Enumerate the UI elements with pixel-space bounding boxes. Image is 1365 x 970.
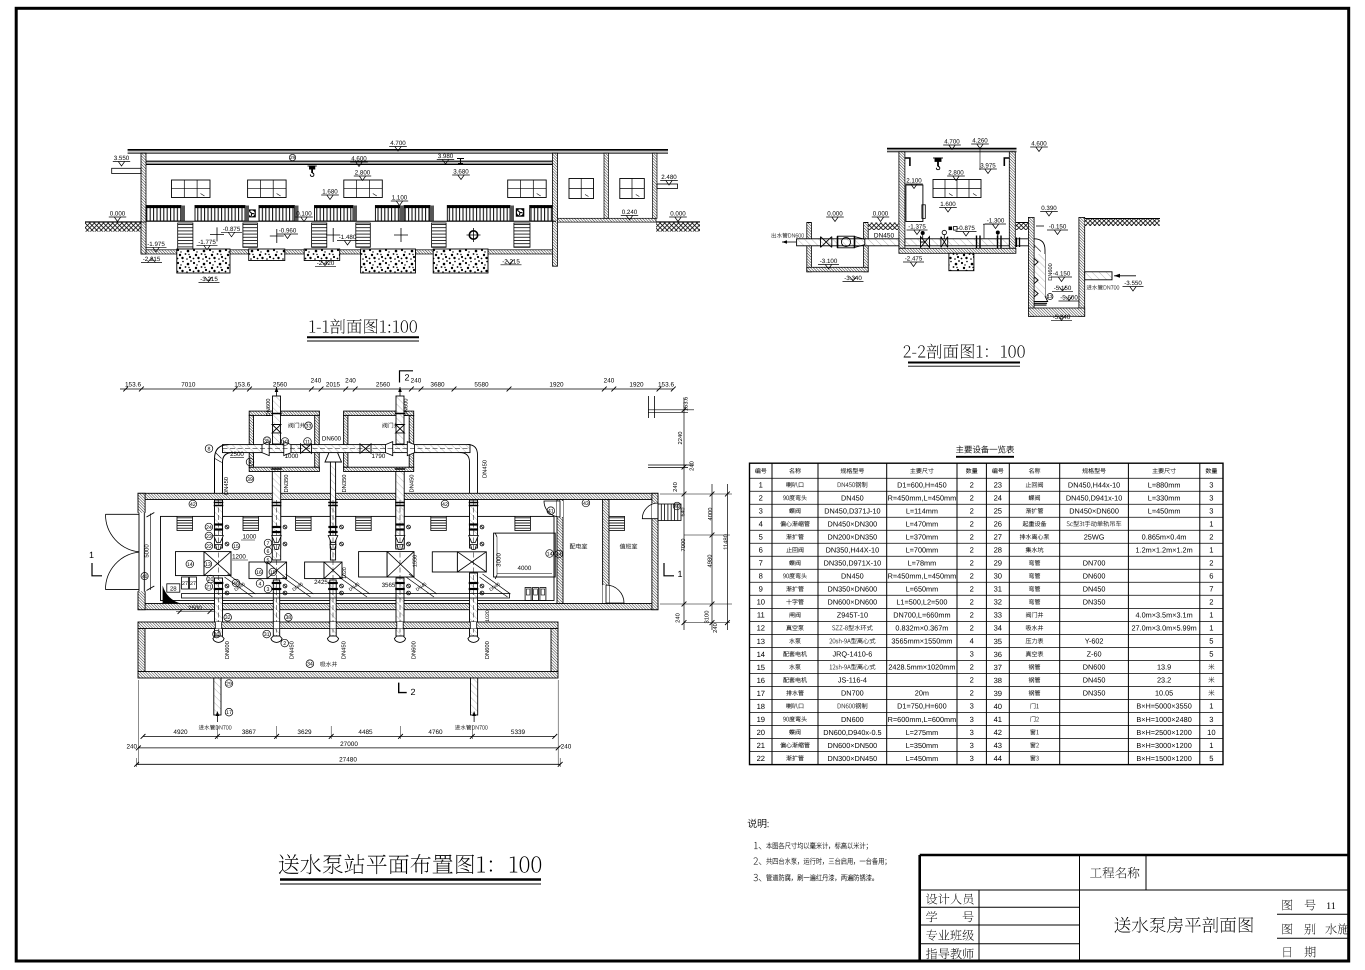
svg-text:1.100: 1.100 [392,195,408,202]
svg-text:2: 2 [1209,533,1213,542]
svg-text:27: 27 [994,533,1002,542]
interior floor line under louvers [146,220,556,222]
svg-text:DN450: DN450 [481,460,488,478]
svg-text:1: 1 [1209,624,1213,633]
svg-text:24: 24 [994,494,1002,503]
section mark 1 left [92,563,102,576]
sub-grade elevation markers [146,246,167,248]
riser through building [396,500,404,548]
suction well left wall [138,629,145,672]
svg-text:34: 34 [994,624,1002,633]
svg-text:32: 32 [994,598,1002,607]
svg-text:1020: 1020 [342,567,348,579]
svg-text:L=450mm: L=450mm [1148,507,1181,516]
svg-text:3.550: 3.550 [114,155,130,162]
svg-text:1000: 1000 [243,534,257,541]
elevation 0.000 over pit [826,216,844,218]
riser through building [272,500,280,548]
svg-text:4: 4 [259,581,262,587]
inlet flow arrow [1114,275,1136,277]
svg-text:240: 240 [126,744,137,751]
svg-text:L=330mm: L=330mm [1148,494,1181,503]
svg-text:4.700: 4.700 [944,139,960,146]
svg-text:4000: 4000 [518,565,532,572]
svg-text:33: 33 [306,424,312,430]
plan top dimension line [120,388,673,390]
svg-text:4760: 4760 [428,729,443,736]
svg-text:15: 15 [233,544,239,550]
svg-text:43: 43 [994,741,1002,750]
svg-text:1020: 1020 [485,610,491,622]
svg-text:5: 5 [759,533,763,542]
circled mark at bell [1047,294,1053,300]
svg-text:2: 2 [970,676,974,685]
svg-text:1550: 1550 [413,555,419,567]
svg-text:3: 3 [970,715,974,724]
svg-text:2: 2 [970,598,974,607]
flexible joint [838,236,855,248]
pilaster piers between louvers [181,206,185,222]
svg-text:30: 30 [994,572,1002,581]
svg-text:11: 11 [305,439,311,445]
svg-text:DN350: DN350 [1083,598,1106,607]
foundation block f5 [433,249,488,273]
svg-text:6: 6 [759,546,763,555]
svg-text:3: 3 [970,650,974,659]
svg-text:22: 22 [206,544,212,550]
pump 3 motor [305,562,324,579]
outlet pipe DN600 to the left [797,239,899,246]
circled numbers pump1 [205,523,213,531]
svg-text:16: 16 [256,570,262,576]
svg-text:240: 240 [345,378,356,385]
elevation -3.340 [843,281,864,283]
svg-text:39: 39 [994,689,1002,698]
elevation 0.240 [621,215,638,217]
svg-text:42: 42 [442,502,448,508]
svg-text:3: 3 [1209,507,1213,516]
svg-text:2: 2 [410,687,415,697]
right dim chain mid [711,484,713,630]
svg-text:B×H=2500×1200: B×H=2500×1200 [1136,728,1191,737]
27 boxes [182,577,189,589]
svg-text:21: 21 [757,741,765,750]
svg-text:7010: 7010 [181,382,196,389]
pump suction pipes to well [215,578,223,636]
svg-text:1: 1 [1209,611,1213,620]
top-right corner vertical stubs [649,396,655,418]
svg-text:3: 3 [970,741,974,750]
table title 主要设备一览表 [956,446,1014,454]
elevation -3.550 [1123,286,1144,288]
svg-text:Y-602: Y-602 [1085,637,1104,646]
svg-text:28: 28 [994,546,1002,555]
flange pair right [977,236,1002,250]
flange bars at wall crossings [214,503,224,506]
svg-text:15: 15 [757,663,765,672]
svg-text:2: 2 [970,520,974,529]
windows row (main hall), 3x2 grid each [172,180,211,198]
left canopy ledge [112,168,141,173]
right canopy at 2.480 [657,184,678,189]
building left wall (2-2) [899,152,905,249]
label 34 吸水井 [306,660,314,668]
inlet arrows up [217,714,474,722]
svg-text:2: 2 [1209,559,1213,568]
elevation -3.100 (pit floor) [818,264,839,266]
arrow up pipe A [276,387,278,396]
label 进水管DN700 [1087,285,1120,290]
svg-text:2: 2 [970,507,974,516]
svg-text:DN600: DN600 [484,641,491,659]
pump 4 motor [359,552,388,577]
svg-text:3565mm×1550mm: 3565mm×1550mm [891,637,952,646]
valve chamber 2 walls [344,411,414,471]
cross fittings at risers [262,442,291,456]
annex wall 1 [604,153,609,218]
svg-text:5339: 5339 [511,729,526,736]
pump 2 motor [249,562,267,579]
title block grid [920,855,1349,961]
svg-text:DN350: DN350 [1083,689,1106,698]
bottom dimension line 1 [143,735,555,737]
svg-text:4485: 4485 [358,729,373,736]
svg-text:1: 1 [677,569,682,579]
vertical pipe hatch [1034,254,1046,296]
svg-text:640: 640 [681,508,687,517]
svg-text:27: 27 [182,581,188,587]
svg-text:44: 44 [994,754,1002,763]
pump 3 casing (X box) [324,562,342,579]
svg-text:17: 17 [226,710,232,716]
elevation 2.800 (2-2) [947,175,965,177]
svg-text:3629: 3629 [297,729,312,736]
flow arrow left [782,241,796,243]
extension lines bottom [137,680,139,765]
svg-text:DN45: DN45 [415,581,428,592]
svg-text:3: 3 [1209,481,1213,490]
svg-text:13.9: 13.9 [1157,663,1171,672]
room labels [570,543,587,548]
section 1-1 roof slab [128,150,668,153]
svg-text:DN600: DN600 [322,436,342,443]
svg-text:1790: 1790 [372,453,386,460]
svg-text:DN450,D941x-10: DN450,D941x-10 [1066,494,1122,503]
note 1 [754,842,761,849]
door partition2 (bottom) [603,585,609,603]
svg-text:3: 3 [970,702,974,711]
svg-text:1: 1 [89,550,94,560]
title: 2-2剖面图1：100 [904,345,911,357]
svg-text:4000: 4000 [707,508,714,521]
svg-text:2: 2 [970,585,974,594]
ground line right + hatch [656,221,700,223]
ground hatch right of building [1016,223,1029,231]
suction well right wall [551,629,558,672]
svg-text:R=450mm,L=450mm: R=450mm,L=450mm [888,572,957,581]
target mark (circle+cross) [467,228,481,242]
annex wall 2 / right end wall [653,153,658,218]
svg-text:2.480: 2.480 [661,174,677,181]
section 2-2 roof slab [887,149,1017,152]
svg-text:2.800: 2.800 [355,170,371,177]
svg-text:1: 1 [1209,702,1213,711]
svg-text:DN600×DN600: DN600×DN600 [828,598,878,607]
设计人员 [926,893,937,904]
svg-text:2500: 2500 [188,605,202,612]
专业班级 [926,930,937,941]
svg-text:3: 3 [970,728,974,737]
circled 9,10,11,35 on manifold [246,458,254,466]
svg-text:2: 2 [404,373,409,383]
svg-text:5: 5 [1209,754,1213,763]
svg-text:13: 13 [205,562,211,568]
fittings on risers [214,523,223,525]
ground hatch between pit and building [868,223,899,231]
elbow pipe turning down [1015,239,1045,296]
svg-text:5: 5 [267,558,270,564]
svg-text:2428.5mm×1020mm: 2428.5mm×1020mm [888,663,955,672]
学 号 [926,911,937,922]
svg-text:-0.960: -0.960 [279,228,297,235]
svg-text:2425: 2425 [314,579,328,586]
manifold left elbow down [215,445,233,530]
svg-text:240: 240 [712,623,719,633]
svg-text:10: 10 [282,439,288,445]
svg-text:8: 8 [759,572,763,581]
工程名称 [1090,868,1101,877]
svg-text:0.000: 0.000 [110,211,126,218]
riser pipe A (chamber1) [273,396,281,444]
svg-text:DN700: DN700 [841,689,864,698]
dim 2500 under manifold [230,457,244,459]
svg-text:0.000: 0.000 [827,211,843,218]
svg-text:19: 19 [757,715,765,724]
svg-text:240: 240 [311,378,322,385]
elevation -1.375 [907,229,928,231]
elevation 2.100 [905,183,923,185]
svg-text:L=78mm: L=78mm [908,559,937,568]
svg-text:5000: 5000 [143,544,150,558]
svg-text:2: 2 [970,481,974,490]
section 1-1 crane beam [141,161,556,164]
svg-text:21: 21 [206,584,212,590]
svg-text:DN350: DN350 [283,474,290,492]
svg-text:1: 1 [1209,520,1213,529]
wall top corbels [905,158,1009,166]
circled mark on roof [289,154,295,160]
building right wall [652,493,658,609]
left pit top edges [807,222,812,224]
elevation 0.000 right of pit [872,216,889,218]
elevation 4.700 (2-2) [943,144,961,146]
svg-text:L=370mm: L=370mm [906,533,939,542]
svg-text:29: 29 [226,681,232,687]
elevation -4.150 [1051,276,1072,278]
right pit left wall [1028,217,1034,316]
left pit walls [807,223,812,272]
指导教师 [926,948,937,959]
svg-text:29: 29 [290,155,296,160]
svg-text:1920: 1920 [549,382,564,389]
svg-text:DN700: DN700 [1083,559,1106,568]
suction well bottom wall [138,672,558,679]
svg-text:11480: 11480 [722,534,729,550]
elevation 4.700 [389,146,407,148]
svg-text:L=880mm: L=880mm [1148,481,1181,490]
svg-text:1.600: 1.600 [940,201,956,208]
svg-text:3867: 3867 [242,729,257,736]
svg-text:0.390: 0.390 [1041,205,1057,212]
svg-text:23: 23 [994,481,1002,490]
svg-text:18: 18 [757,702,765,711]
manifold branch tee to pump3 [325,453,342,462]
svg-text:10: 10 [1207,728,1215,737]
svg-text:Z945T-10: Z945T-10 [837,611,868,620]
inlet pipes below well [214,678,221,715]
svg-text:7000: 7000 [680,539,687,552]
svg-text:-3.215: -3.215 [200,276,218,283]
suction well top wall [138,622,558,629]
svg-text:27.0m×3.0m×5.99m: 27.0m×3.0m×5.99m [1131,624,1196,633]
right room door + stair [652,503,658,519]
valve on pipe A [272,425,281,433]
svg-text:DN350,D971X-10: DN350,D971X-10 [824,559,882,568]
crane hoist (2-2) [933,158,943,170]
bell mouth at pipe bottom [1031,296,1048,302]
svg-text:Z-60: Z-60 [1087,650,1102,659]
svg-text:31: 31 [264,632,270,638]
svg-text:240: 240 [561,744,572,751]
elevation -5.840 [1051,320,1072,322]
foundation block f2 [249,249,285,261]
wall gaps for suction pipes [215,622,221,629]
riser pipe3 from manifold [330,462,335,560]
svg-text:14: 14 [757,650,765,659]
bottom dimension line 3 (27480) [137,763,561,765]
svg-text:2: 2 [970,559,974,568]
elevation 0.000 right [669,216,687,218]
elevation -5.600 [1059,300,1080,302]
svg-text:0.865m×0.4m: 0.865m×0.4m [1142,533,1187,542]
svg-text:DN450,D371J-10: DN450,D371J-10 [824,507,880,516]
svg-text:20m: 20m [915,689,929,698]
svg-text:40: 40 [674,504,680,510]
svg-text:27000: 27000 [340,741,358,748]
elevation 1.100 [391,200,408,202]
pit bottom slab (hatched) segments [141,250,177,254]
svg-text:33: 33 [994,611,1002,620]
svg-text:3.975: 3.975 [980,163,996,170]
svg-text:3000: 3000 [496,553,503,567]
door leaf bottom [106,589,140,591]
svg-text:23.2: 23.2 [1157,676,1171,685]
circled 40 on door wall [141,573,148,580]
svg-text:R=450mm,L=450mm: R=450mm,L=450mm [888,494,957,503]
svg-text:2240: 2240 [677,432,684,445]
concrete pad under pipe [949,253,974,270]
elevation 4.600 [350,161,368,163]
svg-text:27480: 27480 [339,757,357,764]
valve with gauge 2 [941,237,948,248]
discharge manifold pipe [223,445,471,453]
svg-text:DN450: DN450 [1083,585,1106,594]
svg-text:12: 12 [757,624,765,633]
valves on manifold [301,444,312,453]
elevation 3.980 [437,159,454,161]
valve chamber 1 walls [249,411,319,471]
valves/cones on risers [214,536,224,543]
svg-text:0.000: 0.000 [873,211,889,218]
svg-text:0.100: 0.100 [296,211,312,218]
step irons [1034,259,1038,298]
svg-text:1920: 1920 [629,382,644,389]
svg-text:DN450: DN450 [1083,676,1106,685]
svg-text:DN350×DN600: DN350×DN600 [828,585,878,594]
svg-text:L1=500,L2=500: L1=500,L2=500 [896,598,947,607]
svg-text:153.6: 153.6 [234,382,250,389]
left wall of section 1-1 (hatched) [141,153,146,252]
svg-text:20: 20 [208,577,214,583]
dim 2500 bottom-left [176,611,214,613]
svg-text:3100: 3100 [704,611,711,624]
elevation 1.600 [939,207,957,209]
elevation 4.600 (2-2) [1030,146,1048,148]
foundation block f1 (concrete) [177,249,230,273]
pump 5 motor [432,552,457,572]
valve with stem 1 [921,237,930,248]
water level -0.150 [1047,229,1068,231]
note 2 [754,857,762,864]
svg-text:3: 3 [1209,494,1213,503]
riser pipe B continues to pump4 [396,472,404,550]
door partition1 (top) [557,501,563,517]
fan box 2 [516,208,525,217]
inlet pipe DN700 from right [1085,272,1112,280]
foundation block f4 [361,249,416,273]
svg-text:-3.550: -3.550 [1124,280,1142,287]
dim 5000 door [149,514,151,591]
svg-text:4.600: 4.600 [1031,141,1047,148]
svg-text:D1=750,H=600: D1=750,H=600 [897,702,947,711]
svg-text:31: 31 [994,585,1002,594]
svg-text:L=350mm: L=350mm [906,741,939,750]
svg-text:40: 40 [142,574,148,580]
svg-text:153.6: 153.6 [658,382,674,389]
svg-text:29: 29 [994,559,1002,568]
svg-text:2: 2 [970,689,974,698]
pump 1 casing (X box) [204,552,231,576]
svg-text:-1.775: -1.775 [198,239,216,246]
svg-text:L=650mm: L=650mm [906,585,939,594]
labels 进水管DN700 [199,725,232,730]
svg-text:DN600,D940x-0.5: DN600,D940x-0.5 [823,728,881,737]
big double door on left wall [138,513,146,591]
svg-text:4: 4 [970,637,974,646]
svg-text:2: 2 [283,641,286,647]
svg-text:-2.420: -2.420 [317,260,335,267]
svg-text:DN45: DN45 [488,581,501,592]
building left wall [138,493,145,609]
svg-text:35: 35 [994,637,1002,646]
svg-text:3680: 3680 [430,382,445,389]
louver band above floor [146,206,181,222]
svg-text:4.600: 4.600 [351,156,367,163]
label 阀门井 chamber 1 [289,423,305,428]
pipe inside pump house [905,239,1009,246]
svg-text:D1=600,H=450: D1=600,H=450 [897,481,947,490]
svg-text:2: 2 [970,624,974,633]
